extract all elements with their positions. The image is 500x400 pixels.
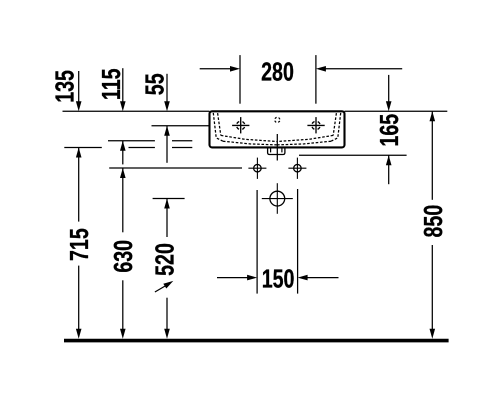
dimension 150 left tick [256,190,258,294]
line G mounting hole level (y=168) [109,167,242,169]
centerline through drain [276,134,278,161]
overflow hole (small dashed circle) [275,117,280,122]
dimension 135 leg (x=78.7 top) [78,71,80,103]
dimension 150 right arrow line [307,277,338,279]
svg-text:150: 150 [262,264,295,293]
arrow 115 down at rim [120,101,126,111]
svg-text:165: 165 [375,114,404,147]
dimension 115 leg (x=122.8 top) [122,68,124,102]
dimension 55 leg (x=167 top) [166,74,168,103]
rim extension line right (y=111.3) [345,110,448,112]
faucet hole left (dashed circle + crosshair) [232,117,249,133]
line F drain center level (y=198.5) [153,198,185,200]
bowl left wall outer [213,113,223,141]
dimension 520 diagonal leader arrow [155,286,166,293]
dimension 115 bottom arrow tail [122,141,124,165]
dimension 715 leg upper [78,148,80,222]
arrow 165 up at line E [386,155,392,165]
arrow 520 diagonal head [163,281,173,289]
dimension 165 bottom arrow tail [388,155,390,184]
arrow 850 down at floor [430,329,436,339]
arrow 630 up at line G [120,168,126,178]
dimension 280 left arrow line [200,68,231,70]
dimension 280 left tick [239,55,241,104]
drain spigot [268,147,285,154]
svg-text:520: 520 [150,243,179,276]
svg-text:55: 55 [140,73,169,95]
arrow 630 down at floor [120,329,126,339]
drain spigot inner wall right [281,147,283,152]
dimension 630 leg upper [122,168,124,232]
arrow 115 up at line C [120,141,126,151]
rim extension line left (y=111.3) [63,110,210,112]
svg-text:630: 630 [109,240,138,273]
dimension 630 leg lower [122,280,124,330]
basin outline [210,111,345,154]
dimension 520 leg lower [166,298,168,330]
svg-text:280: 280 [261,57,294,86]
dimension 850 leg upper (x=432.3) [431,111,433,200]
svg-text:850: 850 [419,205,448,238]
bowl bottom lower-left [223,141,277,145]
dimension 850 leg lower [431,245,433,330]
arrow 55 up at line B [164,126,170,136]
dimension 150 left arrow line [217,277,248,279]
arrow 280 left at right tick [316,66,326,72]
bowl right wall outer [331,113,341,141]
arrow 850 up at rim [430,111,436,121]
faucet hole right (dashed circle + crosshair) [307,117,324,133]
line B 55-below-rim (y=125.7) [152,125,210,127]
bowl right wall inner [333,113,336,135]
arrow 150 left at right tick [298,275,308,281]
arrow 55 down at rim [164,101,170,111]
line D basin bottom / 715 (y=147.5) [64,147,102,149]
svg-text:715: 715 [64,228,93,261]
mounting hole right [288,158,306,179]
floor line [64,339,449,343]
line E 165-below-rim (y=155.3) [299,154,407,156]
mounting hole left [248,158,266,179]
drain pipe circle [262,183,293,214]
bowl bottom upper-left [221,135,277,141]
arrow 715 down at floor [76,329,82,339]
dimension 520 leg upper [166,199,168,238]
dimension 715 leg lower [78,266,80,330]
svg-text:115: 115 [96,68,125,100]
basin interior dashed bowl [213,113,340,145]
drain spigot inner wall left [270,147,272,152]
arrow 715 up at basin bottom [76,148,82,158]
arrow 150 right at left tick [247,275,257,281]
arrow 280 right at left tick [230,66,240,72]
dimension 280 right tick [315,55,317,104]
line C 115-below-rim (y=140.7) [108,140,155,142]
dimension 150 right tick [297,189,299,294]
svg-text:135: 135 [50,70,79,103]
bowl left wall inner [218,113,221,135]
bowl bottom upper-right [277,135,333,141]
arrow 520 down at floor [164,329,170,339]
arrowheads [76,66,435,339]
arrow 165 down at rim [386,101,392,111]
arrow 135 down at rim [76,101,82,111]
bowl bottom lower-right [277,141,331,145]
dimension 165 leg (x=388.7) [388,75,390,103]
arrow 520 up at line F [164,199,170,209]
dimension 55 bottom arrow tail [166,126,168,163]
dimension 280 right arrow line [325,68,402,70]
